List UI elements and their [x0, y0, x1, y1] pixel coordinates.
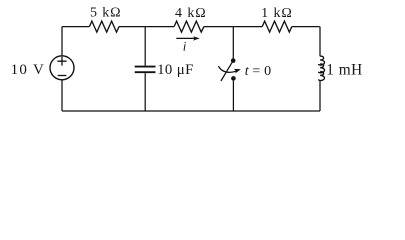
- svg-text:i: i: [183, 38, 187, 53]
- wire between R2 and R3: [204, 26, 262, 28]
- switch arrowhead: [234, 69, 241, 74]
- plus sign: [57, 57, 66, 66]
- wire inductor branch lower: [319, 80, 321, 111]
- wire inductor branch upper: [319, 27, 321, 57]
- svg-text:1 mH: 1 mH: [326, 62, 362, 79]
- current arrowhead: [193, 36, 200, 40]
- switch bottom dot: [231, 76, 236, 81]
- wire switch branch lower: [232, 81, 234, 111]
- resistor R3 1k zigzag: [262, 21, 292, 32]
- wire capacitor branch upper: [144, 27, 146, 66]
- wire left branch upper: [61, 27, 63, 56]
- inductor L1 coil: [319, 56, 325, 80]
- switch SW1 blade: [221, 61, 233, 81]
- wire capacitor branch lower: [144, 73, 146, 111]
- svg-text:5 kΩ: 5 kΩ: [90, 6, 122, 21]
- minus sign: [58, 75, 67, 77]
- wire left branch lower: [61, 80, 63, 111]
- svg-text:10 μF: 10 μF: [157, 62, 194, 78]
- svg-text:1 kΩ: 1 kΩ: [261, 6, 293, 21]
- switch arrow: [218, 66, 236, 72]
- svg-text:4 kΩ: 4 kΩ: [175, 6, 207, 21]
- wire top-left segment: [62, 26, 89, 28]
- wire switch branch upper: [232, 27, 234, 59]
- svg-text:t = 0: t = 0: [245, 64, 272, 79]
- svg-text:10 V: 10 V: [11, 62, 46, 78]
- wire between R1 and R2: [119, 26, 174, 28]
- bottom rail wire: [62, 110, 320, 112]
- resistor R2 4k zigzag: [174, 21, 204, 32]
- resistor R1 5k zigzag: [89, 21, 119, 32]
- wire top-right segment: [292, 26, 320, 28]
- capacitor C1 plates: [135, 67, 156, 73]
- current arrow under R2: [176, 37, 195, 39]
- switch top dot: [231, 58, 236, 63]
- voltage source V1 circle: [50, 56, 74, 80]
